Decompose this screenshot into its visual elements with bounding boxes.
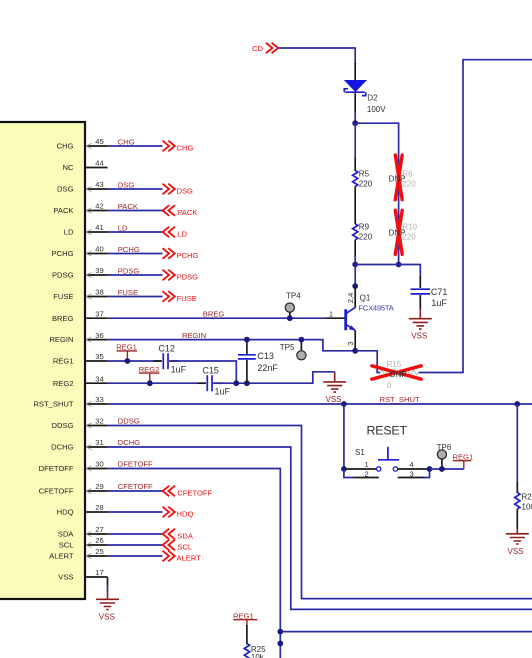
svg-text:FCX495TA: FCX495TA — [358, 304, 394, 313]
net tag REG1 — [116, 343, 137, 361]
svg-text:DCHG: DCHG — [118, 438, 140, 447]
wire DSG — [108, 188, 163, 190]
pin 33 RST_SHUT — [33, 395, 107, 408]
svg-text:SDA: SDA — [58, 530, 75, 539]
net tag REG1 (bottom) — [233, 611, 257, 626]
svg-text:DFETOFF: DFETOFF — [39, 464, 74, 473]
junction REG1/tag — [125, 358, 131, 364]
svg-text:DDSG: DDSG — [118, 417, 140, 426]
svg-text:28: 28 — [95, 503, 103, 512]
wire DDSG — [108, 426, 532, 599]
pin 25 ALERT — [49, 547, 107, 560]
port SDA — [163, 529, 194, 541]
wire REG2 — [108, 382, 205, 384]
wire D2 to R5 — [354, 123, 356, 159]
svg-text:100V: 100V — [367, 105, 386, 114]
resistor R15 DNP — [372, 360, 421, 390]
pin 45 CHG — [57, 137, 108, 150]
svg-text:ALERT: ALERT — [177, 554, 202, 563]
svg-text:10k: 10k — [251, 653, 265, 658]
svg-text:30: 30 — [95, 460, 103, 469]
wire CD to D2 — [278, 48, 355, 64]
svg-text:TP5: TP5 — [280, 343, 295, 352]
resistor R25 — [244, 625, 266, 658]
pin 44 NC — [63, 159, 108, 172]
svg-text:RESET: RESET — [367, 424, 408, 438]
port FUSE — [163, 291, 197, 303]
svg-text:22nF: 22nF — [257, 363, 278, 373]
svg-text:C71: C71 — [431, 287, 448, 297]
svg-text:PACK: PACK — [53, 206, 73, 215]
svg-text:3: 3 — [410, 470, 414, 479]
wire D2 to junction — [354, 112, 356, 124]
ground VSS (IC) — [96, 591, 119, 622]
wire CFETOFF — [108, 490, 163, 492]
svg-text:220: 220 — [359, 232, 373, 241]
svg-text:VSS: VSS — [58, 573, 73, 582]
wire C15 right to VSS step — [213, 372, 335, 383]
wire REG1 — [108, 360, 161, 362]
wire LD — [108, 231, 163, 233]
svg-text:R23: R23 — [522, 492, 532, 501]
wire R15 to right riser — [419, 60, 532, 373]
wire DFETOFF — [108, 469, 281, 658]
net tag REG2 — [139, 365, 160, 383]
wire RST_SHUT — [108, 403, 532, 405]
junction C13 bottom — [244, 380, 250, 386]
wire PCHG — [108, 253, 163, 255]
pin 28 HDQ — [57, 503, 108, 516]
svg-text:VSS: VSS — [411, 332, 427, 341]
IC U? body — [0, 122, 85, 599]
svg-text:3: 3 — [346, 341, 355, 345]
wire BREG to Q1 base — [108, 317, 327, 319]
svg-text:45: 45 — [95, 137, 103, 146]
svg-text:REG1: REG1 — [53, 357, 74, 366]
svg-text:39: 39 — [95, 266, 103, 275]
junction TP6 — [439, 466, 445, 472]
svg-text:27: 27 — [95, 525, 103, 534]
wire SDA — [108, 533, 163, 535]
svg-text:HDQ: HDQ — [57, 508, 74, 517]
wire ALERT — [108, 555, 163, 557]
resistor R5 — [353, 158, 373, 188]
svg-text:FUSE: FUSE — [177, 294, 197, 303]
wire DFETOFF branch — [280, 631, 532, 633]
svg-text:REGIN: REGIN — [49, 335, 73, 344]
ground VSS (near TP5) — [323, 372, 346, 404]
svg-text:LD: LD — [64, 228, 74, 237]
svg-text:REG2: REG2 — [53, 379, 74, 388]
svg-text:BREG: BREG — [52, 314, 74, 323]
test point TP5 — [280, 340, 306, 360]
svg-text:1: 1 — [365, 460, 369, 469]
svg-text:TP6: TP6 — [437, 443, 452, 452]
junction C13 top — [244, 337, 250, 343]
svg-text:C12: C12 — [158, 343, 175, 353]
svg-text:SDA: SDA — [177, 532, 194, 541]
svg-text:41: 41 — [95, 223, 103, 232]
junction below D2 — [352, 120, 358, 126]
resistor R6 DNP — [389, 155, 417, 200]
junction S1 pin1 — [341, 466, 347, 472]
resistor R23 — [515, 482, 532, 529]
svg-text:R9: R9 — [359, 222, 370, 231]
svg-text:CFETOFF: CFETOFF — [177, 489, 212, 498]
svg-text:PDSG: PDSG — [118, 266, 140, 275]
svg-text:CHG: CHG — [118, 137, 135, 146]
wire REGIN — [108, 340, 356, 351]
port CD — [252, 43, 278, 54]
junction TP5 — [299, 337, 305, 343]
pin 34 REG2 — [53, 374, 108, 387]
resistor R9 — [353, 222, 373, 257]
wire HDQ — [108, 511, 163, 513]
port PDSG — [163, 270, 199, 282]
svg-text:PCHG: PCHG — [118, 245, 140, 254]
port HDQ — [163, 507, 194, 519]
port PACK — [163, 205, 198, 217]
svg-text:C15: C15 — [202, 366, 219, 376]
svg-text:DDSG: DDSG — [52, 421, 74, 430]
svg-text:31: 31 — [95, 438, 103, 447]
capacitor C12 — [158, 343, 186, 374]
pin 17 VSS — [58, 568, 107, 581]
capacitor C71 — [411, 276, 448, 309]
svg-text:43: 43 — [95, 180, 103, 189]
wire CHG — [108, 145, 163, 147]
wire to DNP column — [355, 123, 398, 264]
junction TP4 — [287, 315, 293, 321]
port DSG — [163, 184, 194, 196]
svg-text:DNP: DNP — [390, 370, 407, 379]
svg-text:2: 2 — [365, 470, 369, 479]
svg-text:R15: R15 — [387, 360, 402, 369]
svg-text:RST_SHUT: RST_SHUT — [33, 400, 73, 409]
svg-text:R5: R5 — [359, 169, 370, 178]
wire PDSG — [108, 274, 163, 276]
svg-text:ALERT: ALERT — [49, 552, 74, 561]
wire R5 to R9 — [354, 187, 356, 225]
svg-text:2,4: 2,4 — [346, 293, 355, 304]
svg-text:DSG: DSG — [118, 180, 135, 189]
svg-text:SCL: SCL — [177, 543, 192, 552]
pin 26 SCL — [59, 536, 108, 549]
svg-text:37: 37 — [95, 309, 103, 318]
switch S1 — [344, 424, 430, 479]
pin 39 PDSG — [52, 266, 108, 279]
svg-text:4: 4 — [410, 460, 414, 469]
svg-text:VSS: VSS — [507, 547, 523, 556]
svg-text:38: 38 — [95, 288, 103, 297]
svg-text:CFETOFF: CFETOFF — [118, 482, 153, 491]
svg-text:26: 26 — [95, 536, 103, 545]
svg-text:1: 1 — [329, 310, 333, 319]
wire R9 to junction — [354, 256, 356, 265]
pin 27 SDA — [58, 525, 108, 538]
pin 32 DDSG — [52, 417, 108, 430]
pin 40 PCHG — [52, 245, 108, 258]
junction DFETOFF branch — [277, 629, 283, 635]
ground VSS (C71) — [409, 309, 432, 341]
wire RST_SHUT to S1 — [343, 404, 345, 469]
port CFETOFF — [163, 486, 213, 498]
svg-text:FUSE: FUSE — [53, 292, 73, 301]
wire junction to Q1 collector — [354, 265, 356, 288]
svg-text:PACK: PACK — [177, 208, 197, 217]
junction RST_SHUT / S1 — [341, 401, 347, 407]
svg-text:C13: C13 — [257, 351, 274, 361]
svg-text:SCL: SCL — [59, 541, 74, 550]
svg-text:17: 17 — [95, 568, 103, 577]
wire C12 right — [169, 361, 236, 383]
svg-text:NC: NC — [63, 163, 74, 172]
pin 38 FUSE — [53, 288, 107, 301]
svg-text:DSG: DSG — [57, 185, 74, 194]
svg-text:100k: 100k — [522, 502, 532, 511]
diode D2 — [344, 63, 386, 114]
transistor Q1 — [327, 286, 395, 351]
resistor R10 DNP — [389, 210, 418, 254]
svg-text:DSG: DSG — [177, 187, 194, 196]
svg-text:32: 32 — [95, 417, 103, 426]
svg-text:DCHG: DCHG — [51, 443, 73, 452]
wire FUSE — [108, 296, 163, 298]
svg-text:CD: CD — [252, 44, 263, 53]
wire PACK — [108, 210, 163, 212]
port PCHG — [163, 248, 199, 260]
svg-text:DNP: DNP — [389, 228, 406, 237]
svg-text:CHG: CHG — [177, 144, 194, 153]
svg-text:VSS: VSS — [99, 612, 115, 621]
junction S1 pin4 — [427, 466, 433, 472]
svg-text:S1: S1 — [355, 448, 365, 457]
svg-text:25: 25 — [95, 547, 103, 556]
test point TP6 — [437, 443, 452, 469]
port CHG — [163, 141, 194, 153]
svg-text:D2: D2 — [367, 94, 378, 103]
svg-text:FUSE: FUSE — [118, 288, 138, 297]
junction Q1 emitter — [352, 348, 358, 354]
junction RST_SHUT / R23 — [514, 401, 520, 407]
port LD — [163, 227, 188, 239]
net tag REG1 (right) — [453, 452, 474, 469]
svg-text:Q1: Q1 — [360, 293, 371, 302]
ground VSS (R23) — [506, 529, 529, 556]
capacitor C15 — [202, 366, 230, 397]
svg-text:PDSG: PDSG — [177, 273, 199, 282]
svg-text:VSS: VSS — [325, 395, 341, 404]
wire to C71 — [355, 265, 420, 278]
junction Q1 collector — [352, 283, 358, 289]
svg-text:TP4: TP4 — [286, 291, 301, 300]
svg-text:REGIN: REGIN — [182, 331, 206, 340]
svg-text:1uF: 1uF — [215, 386, 231, 396]
svg-text:HDQ: HDQ — [177, 510, 194, 519]
port ALERT — [163, 551, 202, 563]
junction DFETOFF lower — [277, 641, 283, 647]
svg-text:LD: LD — [118, 223, 128, 232]
svg-text:40: 40 — [95, 245, 103, 254]
wire SCL — [108, 544, 163, 546]
pin 42 PACK — [53, 202, 107, 215]
pin 30 DFETOFF — [39, 460, 108, 473]
junction REG2/tag — [147, 380, 153, 386]
svg-text:LD: LD — [177, 230, 187, 239]
svg-text:PACK: PACK — [118, 202, 138, 211]
svg-text:0: 0 — [387, 381, 392, 390]
svg-text:1uF: 1uF — [431, 298, 447, 308]
svg-text:220: 220 — [359, 179, 373, 188]
svg-text:BREG: BREG — [203, 309, 225, 318]
pin 29 CFETOFF — [39, 482, 108, 495]
svg-text:42: 42 — [95, 202, 103, 211]
pin 31 DCHG — [51, 438, 107, 451]
svg-text:CFETOFF: CFETOFF — [39, 487, 74, 496]
svg-text:DFETOFF: DFETOFF — [118, 460, 153, 469]
junction DNP column bottom — [396, 262, 402, 268]
svg-text:PCHG: PCHG — [177, 251, 199, 260]
svg-text:CHG: CHG — [57, 142, 74, 151]
wire DCHG — [108, 447, 532, 609]
pin 43 DSG — [57, 180, 108, 193]
pin 35 REG1 — [53, 352, 108, 365]
svg-text:36: 36 — [95, 331, 103, 340]
svg-text:PCHG: PCHG — [52, 249, 74, 258]
capacitor C13 — [238, 340, 278, 384]
svg-text:PDSG: PDSG — [52, 271, 74, 280]
svg-text:33: 33 — [95, 395, 103, 404]
svg-text:35: 35 — [95, 352, 103, 361]
port SCL — [163, 540, 192, 552]
junction C12 drop — [233, 380, 239, 386]
pin 41 LD — [64, 223, 108, 236]
svg-text:34: 34 — [95, 374, 103, 383]
test point TP4 — [285, 291, 301, 318]
svg-text:44: 44 — [95, 159, 103, 168]
wire S1 to REG1 tag — [430, 468, 464, 470]
svg-text:DNP: DNP — [389, 174, 406, 183]
wire VSS pin drop — [107, 577, 109, 591]
pin 36 REGIN — [49, 331, 107, 344]
svg-text:1uF: 1uF — [171, 364, 187, 374]
svg-text:29: 29 — [95, 482, 103, 491]
wire emitter to R15 — [355, 351, 380, 373]
wire R23 drop — [516, 404, 518, 483]
svg-text:RST_SHUT: RST_SHUT — [380, 395, 420, 404]
junction R5/R9 column bottom — [352, 262, 358, 268]
pin 37 BREG — [52, 309, 108, 322]
